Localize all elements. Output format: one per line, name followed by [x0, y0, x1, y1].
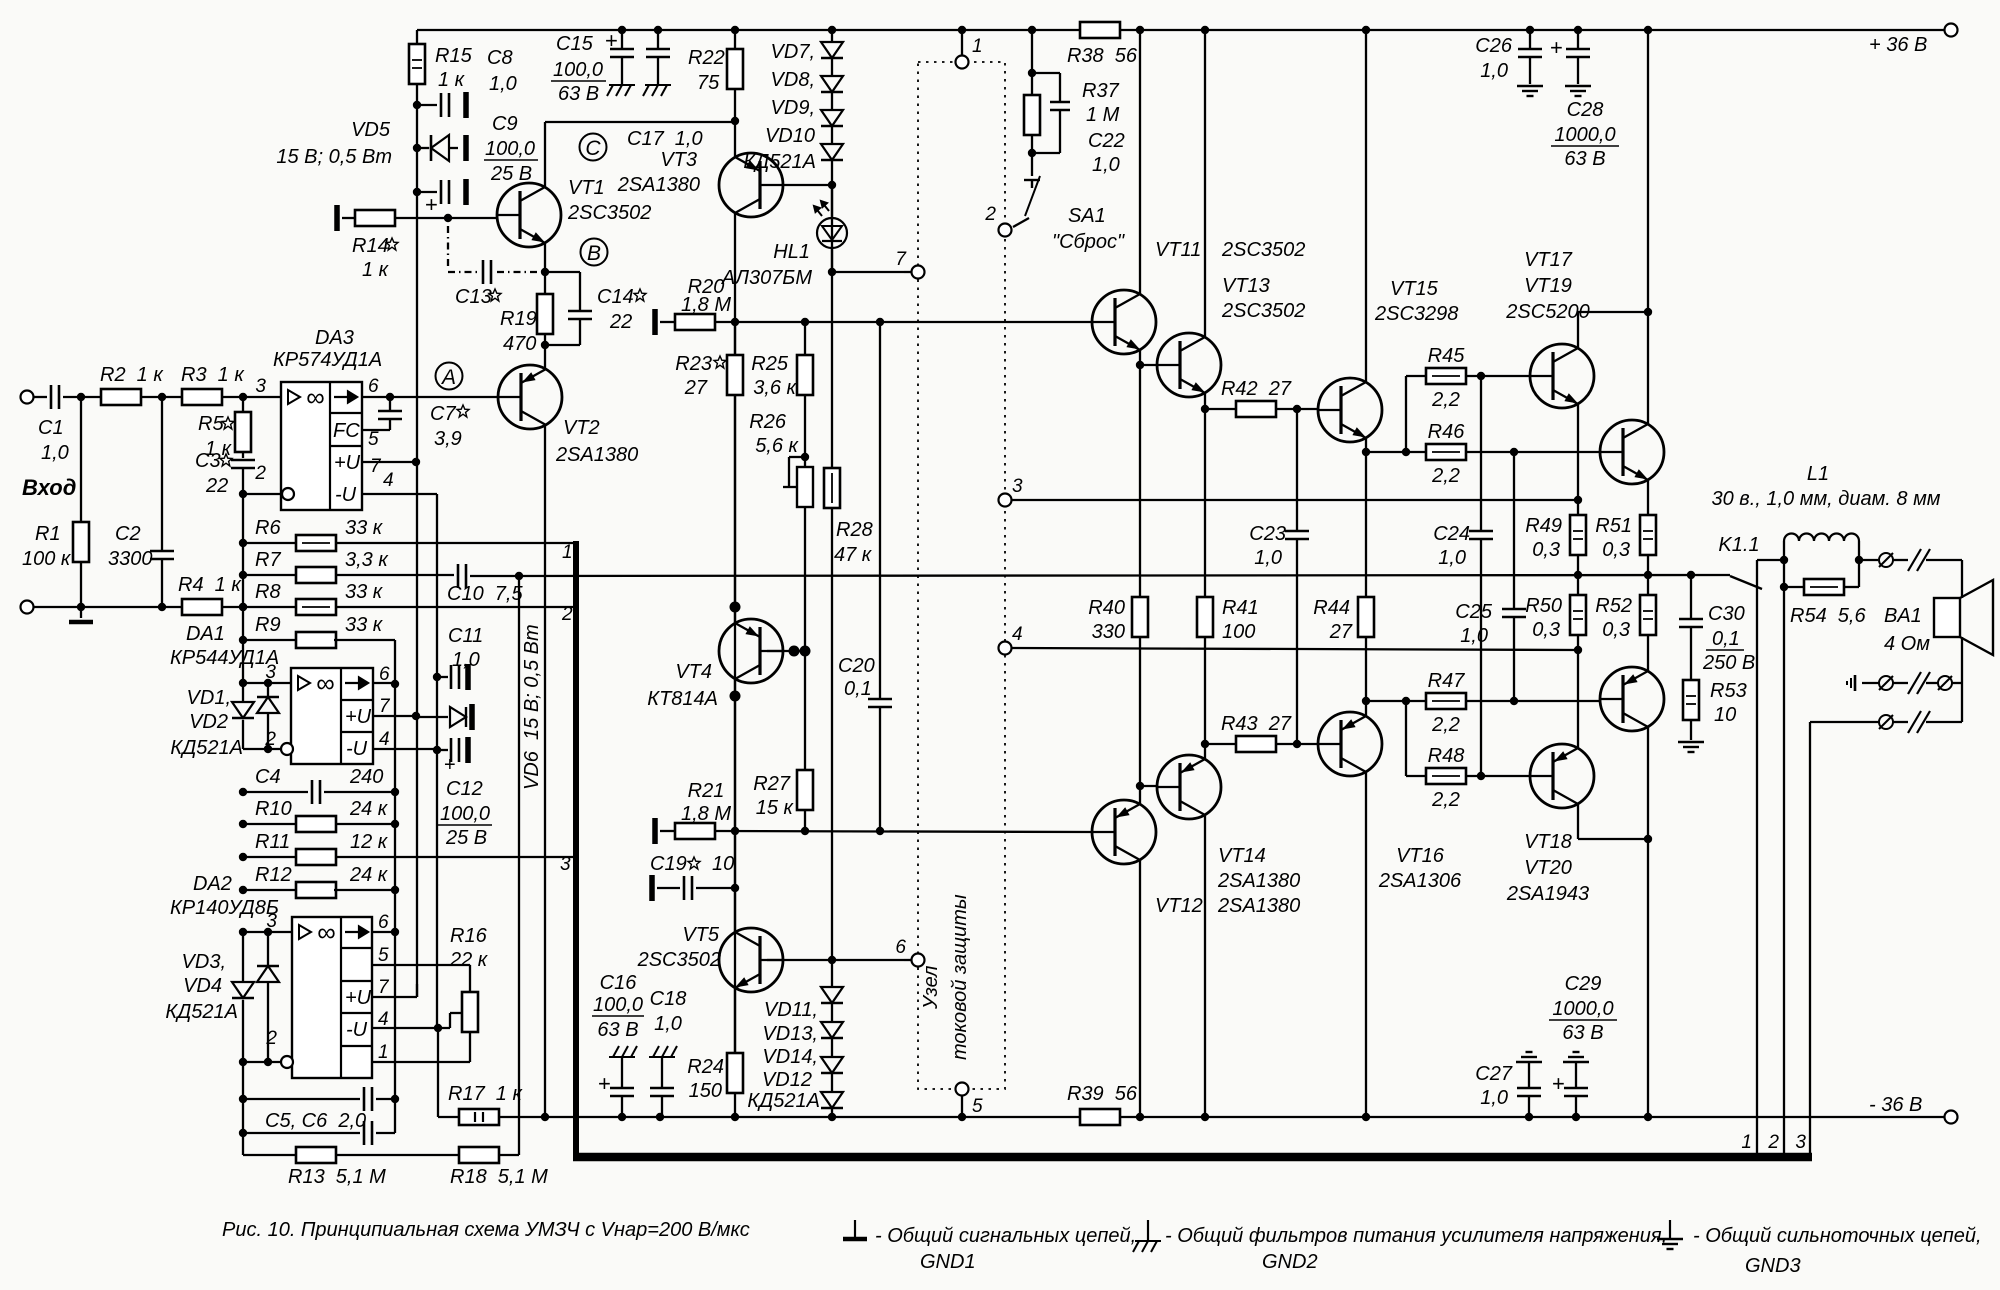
svg-text:33 к: 33 к — [345, 517, 384, 539]
svg-text:1: 1 — [1741, 1132, 1752, 1153]
diode VD2 — [232, 702, 254, 718]
svg-text:2: 2 — [561, 604, 573, 625]
svg-text:R24: R24 — [687, 1056, 724, 1078]
svg-text:КТ814А: КТ814А — [647, 688, 718, 710]
wire x735 segment — [734, 607, 736, 888]
capacitor C15a — [610, 48, 634, 51]
wire VT3 emitter — [734, 121, 736, 158]
node C26 — [1526, 26, 1534, 34]
wire relay to L1 — [1757, 559, 1784, 561]
svg-text:R39 56: R39 56 — [1067, 1083, 1138, 1105]
svg-text:2: 2 — [1767, 1132, 1779, 1153]
wire R10 left — [243, 823, 296, 825]
capacitor C24 — [1469, 530, 1493, 533]
node VT4 emitter — [730, 602, 741, 613]
svg-text:12 к: 12 к — [350, 831, 389, 853]
wire C9 — [417, 191, 437, 193]
wire C26 — [1529, 30, 1531, 48]
svg-text:R21: R21 — [688, 780, 725, 802]
resistor R41 — [1197, 597, 1213, 637]
diode VD10 — [821, 144, 843, 160]
wire row2 to bus — [1810, 721, 1879, 723]
wire VT20 emitter — [1577, 650, 1579, 749]
wire R19 bottom — [544, 334, 546, 345]
inductor L1 — [1784, 534, 1859, 541]
svg-text:КД521А: КД521А — [743, 151, 816, 173]
resistor R2 — [101, 389, 141, 405]
svg-text:1 к: 1 к — [362, 259, 390, 281]
svg-text:C30: C30 — [1708, 603, 1745, 625]
wire C4 left — [243, 791, 308, 793]
node R6 — [239, 539, 247, 547]
ground GND2 C16 — [609, 1056, 635, 1058]
svg-text:VD13,: VD13, — [762, 1023, 818, 1045]
wire VD1 top — [267, 683, 269, 697]
cable break // return — [1908, 672, 1921, 694]
svg-text:- Общий фильтров питания усили: - Общий фильтров питания усилителя напря… — [1165, 1225, 1667, 1247]
svg-text:C22: C22 — [1088, 130, 1125, 152]
wire R16 to pin1 — [469, 1032, 471, 1062]
node VT4 base/R26 — [800, 646, 811, 657]
gnd bar R20 — [652, 309, 658, 335]
node wire3/R49 — [1574, 496, 1582, 504]
resistor R20 — [675, 314, 715, 330]
wire VD11 top — [831, 960, 833, 987]
wire DA2 output — [372, 931, 395, 933]
svg-text:R54 5,6: R54 5,6 — [1790, 605, 1866, 627]
svg-text:R8: R8 — [255, 581, 281, 603]
wire R41 top — [1204, 409, 1206, 597]
wire 4 from terminal 4 — [1012, 648, 1578, 650]
svg-text:25 В: 25 В — [490, 163, 532, 185]
junction R17/R18 — [541, 1113, 549, 1121]
wire VT13 emitter — [1204, 392, 1206, 409]
svg-text:C27: C27 — [1475, 1063, 1513, 1085]
svg-text:R42 27: R42 27 — [1221, 378, 1292, 400]
capacitor C29 — [1564, 1087, 1588, 1090]
ground GND2 C15a — [609, 84, 635, 86]
wire DA2 pin2 — [243, 1061, 281, 1063]
wire R1 bottom — [80, 562, 82, 607]
wire R46 line — [1366, 451, 1600, 453]
svg-text:C12: C12 — [446, 778, 483, 800]
resistor R21 — [675, 823, 715, 839]
svg-text:R48: R48 — [1428, 745, 1465, 767]
wire pin5 to R16 — [469, 965, 471, 992]
svg-text:100: 100 — [1222, 621, 1255, 643]
wire VD4 top — [267, 932, 269, 966]
node VT14 base — [1136, 782, 1144, 790]
svg-text:27: 27 — [1329, 621, 1353, 643]
wire R23 top — [734, 322, 736, 355]
wire C4 right — [324, 791, 395, 793]
wire to output jack — [1859, 559, 1878, 561]
resistor R49 — [1570, 515, 1586, 555]
wire DA2 pin5 — [372, 964, 470, 966]
wire DA3 pin5 FC — [362, 429, 390, 431]
node C25 top — [1510, 448, 1518, 456]
node C19/VT5 — [731, 884, 739, 892]
wire DA2 -U — [372, 1027, 450, 1029]
resistor R4 — [182, 599, 222, 615]
capacitor C12 — [450, 738, 453, 762]
node C28 — [1574, 26, 1582, 34]
svg-text:150: 150 — [689, 1080, 722, 1102]
svg-text:33 к: 33 к — [345, 614, 384, 636]
svg-text:C24: C24 — [1433, 523, 1470, 545]
resistor R25 — [797, 355, 813, 395]
svg-text:DA3: DA3 — [315, 327, 354, 349]
svg-text:VD3,: VD3, — [182, 951, 226, 973]
wire R13-R18 — [336, 1154, 460, 1156]
wire C24 top — [1480, 376, 1482, 531]
wire VD7 top — [831, 30, 833, 42]
node C11 — [433, 673, 441, 681]
resistor R46 — [1426, 444, 1466, 460]
connector ∅ return left — [1879, 676, 1893, 690]
svg-text:R13 5,1 М: R13 5,1 М — [288, 1166, 386, 1188]
capacitor C26 — [1518, 48, 1542, 51]
svg-text:15 В; 0,5 Вт: 15 В; 0,5 Вт — [276, 146, 392, 168]
wire VT19 emitter — [1647, 479, 1649, 515]
resistor R16 — [462, 992, 478, 1032]
wire SA1 to terminal 2 — [1013, 218, 1029, 227]
wire R15 top — [416, 30, 418, 45]
svg-text:1,0: 1,0 — [41, 442, 69, 464]
wire +36 drop — [1647, 30, 1649, 312]
svg-text:1000,0: 1000,0 — [1552, 998, 1613, 1020]
svg-text:R38 56: R38 56 — [1067, 45, 1138, 67]
svg-text:R26: R26 — [749, 411, 787, 433]
circled letter A — [436, 363, 463, 390]
svg-text:SA1: SA1 — [1068, 205, 1106, 227]
diode VD6 — [450, 707, 466, 727]
svg-text:1,0: 1,0 — [1254, 547, 1282, 569]
wire R40 bottom — [1139, 637, 1141, 786]
svg-text:0,3: 0,3 — [1602, 539, 1630, 561]
wire C20 column bottom — [879, 707, 881, 831]
LED HL1 АЛ307БМ — [814, 201, 847, 248]
node VT13 base — [1136, 361, 1144, 369]
svg-text:C1: C1 — [38, 417, 64, 439]
svg-text:30 в., 1,0 мм, диам. 8 мм: 30 в., 1,0 мм, диам. 8 мм — [1711, 488, 1940, 510]
wire bus 2 — [1783, 587, 1785, 1156]
resistor R9 — [296, 632, 336, 648]
transistor VT2 2SA1380 — [498, 365, 562, 429]
wire R12 right — [334, 889, 395, 891]
wire R27 bottom — [804, 810, 806, 831]
svg-text:VT17: VT17 — [1524, 249, 1573, 271]
node C8 — [413, 101, 421, 109]
wire R26 bottom — [804, 507, 806, 651]
wire C6 — [243, 1132, 360, 1134]
ground GND2 C18 — [649, 1056, 675, 1058]
svg-text:- Общий сильноточных цепей,: - Общий сильноточных цепей, — [1693, 1225, 1982, 1247]
svg-text:1,0: 1,0 — [1092, 154, 1120, 176]
svg-text:R43 27: R43 27 — [1221, 713, 1292, 735]
speaker BA1 4 Ом — [1934, 580, 1993, 655]
svg-text:VT18: VT18 — [1524, 831, 1572, 853]
svg-text:2: 2 — [984, 204, 996, 225]
svg-text:VD9,: VD9, — [771, 97, 815, 119]
wire +36V rail right segment — [1120, 29, 1944, 31]
wire R5-C3 — [242, 452, 244, 458]
resistor R47 — [1426, 693, 1466, 709]
svg-text:АЛ307БМ: АЛ307БМ — [721, 267, 812, 289]
node R17 tap — [434, 1024, 442, 1032]
svg-text:VT1: VT1 — [568, 177, 605, 199]
gnd bar R21 — [652, 818, 658, 844]
svg-text:R45: R45 — [1428, 345, 1466, 367]
svg-text:5: 5 — [368, 429, 379, 450]
resistor R53 — [1683, 680, 1699, 720]
svg-text:1: 1 — [562, 542, 573, 563]
svg-text:VT14: VT14 — [1218, 845, 1266, 867]
svg-text:R12: R12 — [255, 864, 292, 886]
legend GND2 symbol — [1147, 1220, 1149, 1241]
svg-text:C23: C23 — [1249, 523, 1286, 545]
capacitor C7 — [378, 410, 402, 413]
svg-text:R47: R47 — [1428, 670, 1466, 692]
wire C20 column top — [879, 322, 881, 699]
svg-text:HL1: HL1 — [773, 241, 810, 263]
svg-text:DA1: DA1 — [186, 623, 225, 645]
bubble DA2 inverting input — [281, 1056, 293, 1068]
wire tap to R17 — [437, 1028, 439, 1109]
wire R9 — [243, 639, 334, 641]
wire R28 bottom column — [831, 508, 833, 960]
wire R9 right — [334, 639, 395, 641]
svg-text:R44: R44 — [1313, 597, 1350, 619]
capacitor C3 — [231, 459, 255, 462]
svg-text:+: + — [1550, 35, 1563, 60]
transistor VT15 2SC3298 — [1318, 378, 1382, 442]
node C15b — [654, 26, 662, 34]
svg-text:0,3: 0,3 — [1602, 619, 1630, 641]
circled letter C — [580, 134, 607, 161]
wire VAS to VT11 base — [715, 321, 1092, 323]
diode VD14 — [821, 1057, 843, 1073]
resistor R13 — [296, 1147, 336, 1163]
wire C12 — [437, 749, 448, 751]
svg-text:1 М: 1 М — [1086, 104, 1120, 126]
svg-text:250 В: 250 В — [1702, 652, 1755, 674]
node +36 drop — [1644, 308, 1652, 316]
svg-text:L1: L1 — [1807, 463, 1829, 485]
node C13 tap — [444, 214, 452, 222]
svg-text:∞: ∞ — [306, 382, 325, 412]
ground GND3 C29 — [1563, 1061, 1589, 1063]
wire R5 top — [242, 397, 244, 412]
svg-text:R14: R14 — [352, 235, 389, 257]
node VT4 collector — [730, 691, 741, 702]
wire C15b bottom — [657, 57, 659, 84]
op-amp DA2 КР140УД8Б — [292, 917, 372, 1078]
svg-text:1,0: 1,0 — [1438, 547, 1466, 569]
svg-text:0,3: 0,3 — [1532, 619, 1560, 641]
capacitor C14 — [568, 310, 592, 313]
svg-text:C: C — [585, 137, 601, 160]
svg-text:КР544УД1А: КР544УД1А — [170, 647, 279, 669]
svg-text:GND1: GND1 — [920, 1251, 976, 1273]
svg-text:R5: R5 — [198, 413, 224, 435]
ground GND3 C27 — [1516, 1061, 1542, 1063]
svg-text:R53: R53 — [1710, 680, 1747, 702]
op-amp DA1 КР544УД1А — [291, 668, 373, 764]
svg-text:100,0: 100,0 — [553, 59, 603, 81]
wire R25-R26 — [804, 395, 806, 467]
wire shielded cable bus (thick) — [573, 541, 579, 1161]
svg-text:3: 3 — [255, 376, 266, 397]
svg-text:∞: ∞ — [317, 917, 336, 947]
wire VT4 base — [767, 650, 805, 652]
wire DA2 pin1 — [372, 1061, 470, 1063]
wire R12 down — [394, 890, 396, 932]
svg-text:VD10: VD10 — [765, 125, 815, 147]
svg-text:+: + — [444, 754, 456, 776]
svg-text:6: 6 — [378, 912, 389, 933]
wire C14 branch — [579, 272, 581, 311]
wire C22 top — [1032, 72, 1060, 74]
wire VT5 base to terminal 6 — [767, 959, 904, 961]
wire servo sense column — [518, 576, 520, 1155]
resistor R52 — [1640, 595, 1656, 635]
svg-text:1: 1 — [972, 36, 983, 57]
svg-text:VT15: VT15 — [1390, 278, 1439, 300]
gnd bar C19 — [649, 875, 655, 901]
svg-text:R40: R40 — [1088, 597, 1125, 619]
svg-text:1,0: 1,0 — [654, 1013, 682, 1035]
svg-text:Рис. 10. Принципиальная схема: Рис. 10. Принципиальная схема УМЗЧ с Vна… — [222, 1219, 750, 1241]
svg-text:1,8 М: 1,8 М — [681, 803, 731, 825]
svg-text:R19: R19 — [500, 308, 537, 330]
wire C8 — [417, 104, 437, 106]
node C23 top — [1293, 405, 1301, 413]
svg-text:10: 10 — [1714, 704, 1736, 726]
svg-text:22: 22 — [205, 475, 228, 497]
capacitor C1 — [50, 385, 53, 409]
transistor VT16 2SA1306 — [1318, 712, 1382, 776]
wire VT16 collector — [1365, 771, 1367, 1117]
svg-text:0,1: 0,1 — [1712, 628, 1740, 650]
node C5 — [239, 1095, 247, 1103]
wire R42 right — [1276, 408, 1318, 410]
resistor R37 — [1024, 95, 1040, 135]
wire servo node column — [394, 640, 396, 890]
shield ground small — [1854, 675, 1857, 691]
svg-text:2,2: 2,2 — [1431, 789, 1460, 811]
connector symbol ∅ output — [1879, 553, 1893, 567]
svg-text:VT3: VT3 — [660, 149, 697, 171]
resistor R10 — [296, 816, 336, 832]
svg-text:C17 1,0: C17 1,0 — [627, 128, 703, 150]
svg-text:R22: R22 — [688, 47, 725, 69]
node HL1/терминал7 — [828, 268, 836, 276]
ground GND3 C28 — [1565, 85, 1591, 87]
transistor VT20 2SA1943 — [1530, 744, 1594, 808]
svg-text:3,9: 3,9 — [434, 428, 462, 450]
resistor R48 — [1426, 768, 1466, 784]
capacitor C8 — [440, 93, 443, 117]
legend GND3 symbol — [1669, 1220, 1671, 1238]
svg-text:2: 2 — [254, 463, 266, 484]
wire C2 top — [161, 397, 163, 551]
svg-text:2SA1380: 2SA1380 — [1217, 870, 1300, 892]
capacitor C30 — [1679, 618, 1703, 621]
wire VD5 — [417, 147, 429, 149]
wire 3 line (R11) — [243, 856, 573, 858]
terminal input bottom — [21, 601, 34, 614]
wire +36V rail left segment — [417, 29, 1080, 31]
wire VT13 base link — [1140, 364, 1158, 366]
node R9 — [239, 636, 247, 644]
svg-text:4: 4 — [383, 470, 394, 491]
svg-text:3,3 к: 3,3 к — [345, 549, 389, 571]
svg-text:R46: R46 — [1428, 421, 1466, 443]
node R26 top — [801, 453, 809, 461]
terminal 4 — [999, 642, 1012, 655]
wire to gnd1 — [80, 607, 82, 618]
svg-text:1,0: 1,0 — [1480, 1087, 1508, 1109]
resistor R6 — [296, 535, 336, 551]
node C25 bottom — [1510, 697, 1518, 705]
svg-text:VD12: VD12 — [762, 1069, 812, 1091]
svg-text:0,1: 0,1 — [844, 678, 872, 700]
svg-text:63 В: 63 В — [1564, 148, 1605, 170]
capacitor C23 — [1285, 530, 1309, 533]
svg-text:-U: -U — [346, 1019, 368, 1041]
svg-text:- 36 В: - 36 В — [1869, 1094, 1922, 1116]
svg-text:1,0: 1,0 — [452, 649, 480, 671]
wire R37 top — [1031, 30, 1033, 95]
node C6 — [239, 1129, 247, 1137]
diode VD12 — [821, 1092, 843, 1108]
svg-text:2SA1943: 2SA1943 — [1506, 883, 1589, 905]
svg-text:VT11: VT11 — [1155, 239, 1201, 261]
svg-text:1000,0: 1000,0 — [1554, 124, 1615, 146]
node R46 line left — [1362, 448, 1370, 456]
wire input to DA3 pin3 — [63, 396, 281, 398]
svg-text:100,0: 100,0 — [593, 994, 643, 1016]
wire C14 top — [545, 271, 580, 273]
node C24 bottom — [1477, 772, 1485, 780]
svg-text:C28: C28 — [1567, 99, 1604, 121]
node VT3 emitter — [731, 117, 739, 125]
svg-text:3300: 3300 — [108, 548, 153, 570]
wire C11 — [437, 676, 448, 678]
wire VT15 emitter — [1365, 437, 1367, 452]
svg-text:R25: R25 — [751, 353, 789, 375]
wire VD3 top — [242, 932, 244, 982]
diode VD1 — [257, 697, 279, 713]
svg-text:+U: +U — [345, 706, 372, 728]
svg-text:A: A — [440, 366, 456, 389]
terminal 1 — [956, 56, 969, 69]
terminal 6 — [912, 954, 925, 967]
wire HL1 top — [831, 186, 833, 218]
svg-text:7: 7 — [379, 696, 391, 717]
svg-text:C2: C2 — [115, 523, 141, 545]
junction C30 tap — [1687, 571, 1695, 579]
wire dashed C13 left — [448, 271, 477, 273]
svg-text:FC: FC — [333, 420, 360, 442]
node C9 — [413, 188, 421, 196]
svg-text:100,0: 100,0 — [485, 138, 535, 160]
wire collectors join — [1578, 311, 1648, 313]
resistor R45 — [1426, 368, 1466, 384]
node VD5 — [413, 144, 421, 152]
wire VT1 collector — [544, 122, 546, 188]
